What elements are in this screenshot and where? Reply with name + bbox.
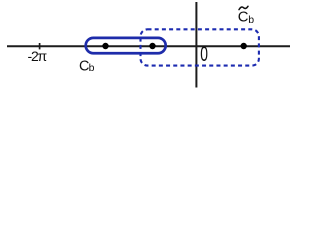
branch point dot z3 — [241, 43, 247, 49]
contour C_b (solid stadium) — [86, 38, 166, 53]
dashed contour C~_b (dashed rounded rectangle) — [141, 29, 259, 65]
label C~_b tilde — [239, 6, 248, 9]
svg-text:0: 0 — [200, 42, 208, 66]
vertical axis (imaginary axis) — [195, 2, 197, 88]
branch point dot z1 — [102, 43, 108, 49]
tick at -2pi — [39, 43, 41, 49]
svg-text:b: b — [89, 62, 95, 74]
svg-text:-2π: -2π — [28, 48, 48, 64]
svg-text:b: b — [248, 14, 254, 26]
branch point dot z2 — [149, 43, 155, 49]
svg-text:C: C — [238, 10, 249, 26]
horizontal axis (real axis) — [7, 45, 290, 47]
